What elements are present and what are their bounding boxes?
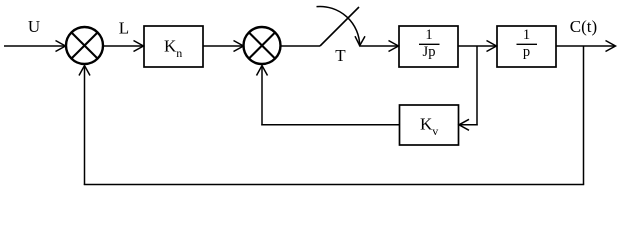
svg-text:U: U: [28, 17, 40, 36]
svg-text:1: 1: [523, 27, 530, 43]
wire 1/Jp to 1/p (with tap node): [458, 41, 497, 52]
block Kv: [400, 105, 459, 145]
switch T actuation arc arrow: [317, 6, 366, 46]
block 1/p: [497, 26, 556, 67]
block Kn: [144, 26, 203, 67]
svg-text:Jp: Jp: [423, 44, 436, 60]
wire switch to block 1/Jp: [360, 41, 399, 52]
svg-text:T: T: [335, 46, 346, 65]
svg-text:1: 1: [425, 27, 432, 43]
wire S2 to switch T pivot: [281, 45, 321, 47]
wire input to S1: [4, 41, 66, 52]
wire inner feedback: up into S2: [257, 66, 268, 126]
wire S1 to Kn: [103, 41, 144, 52]
svg-text:p: p: [523, 44, 530, 60]
block 1/Jp: [399, 26, 458, 67]
summing junction S2: [244, 27, 281, 64]
svg-text:C(t): C(t): [570, 17, 597, 36]
wire outer feedback: bottom run: [84, 184, 584, 186]
wire inner feedback: into Kv: [459, 119, 478, 130]
wire Kv to S2 riser (horizontal): [261, 124, 399, 126]
svg-text:L: L: [119, 19, 129, 38]
wire inner feedback: down from tap node: [476, 46, 478, 126]
wire outer feedback: down from output node: [583, 46, 585, 185]
summing junction S1: [66, 27, 103, 64]
wire Kn to S2: [203, 41, 244, 52]
label 1/p fraction: [517, 27, 538, 60]
switch T blade: [320, 7, 359, 46]
wire output C(t): [556, 41, 616, 52]
label 1/Jp fraction: [419, 27, 440, 60]
wire outer feedback: up into S1: [79, 66, 90, 186]
